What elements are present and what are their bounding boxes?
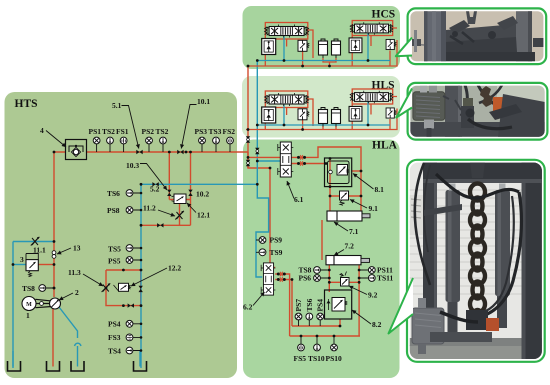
svg-text:10.1: 10.1	[197, 97, 210, 106]
svg-text:PS10: PS10	[326, 354, 343, 363]
svg-text:7.2: 7.2	[345, 242, 355, 251]
svg-text:HCS: HCS	[372, 9, 396, 21]
svg-text:12.2: 12.2	[168, 264, 181, 273]
svg-text:12.1: 12.1	[197, 211, 210, 220]
svg-text:11.2: 11.2	[143, 204, 156, 213]
svg-text:FS1: FS1	[116, 127, 129, 136]
svg-text:M: M	[26, 302, 32, 308]
svg-text:6.1: 6.1	[294, 195, 304, 204]
svg-text:PS6: PS6	[299, 274, 312, 283]
svg-text:PS1: PS1	[89, 127, 102, 136]
svg-text:11.1: 11.1	[33, 246, 46, 255]
svg-text:4: 4	[40, 126, 44, 135]
svg-text:TS9: TS9	[270, 248, 283, 257]
svg-text:PS8: PS8	[107, 206, 120, 215]
svg-text:13: 13	[73, 244, 81, 253]
svg-text:TS5: TS5	[108, 245, 121, 254]
svg-text:8.2: 8.2	[372, 320, 382, 329]
svg-text:TS6: TS6	[107, 189, 120, 198]
svg-text:TS2: TS2	[156, 127, 169, 136]
svg-text:PS3: PS3	[195, 127, 208, 136]
svg-text:HLS: HLS	[372, 80, 395, 92]
svg-text:5.2: 5.2	[150, 185, 160, 194]
svg-text:10.3: 10.3	[126, 161, 139, 170]
svg-text:2: 2	[75, 288, 79, 297]
svg-text:FS2: FS2	[223, 127, 236, 136]
svg-text:TS8: TS8	[22, 284, 35, 293]
svg-text:PS5: PS5	[108, 257, 121, 266]
svg-text:PS4: PS4	[108, 320, 121, 329]
svg-text:6.2: 6.2	[243, 303, 253, 312]
svg-text:3: 3	[20, 255, 24, 264]
svg-text:TS3: TS3	[209, 127, 222, 136]
svg-text:PS7: PS7	[294, 299, 303, 312]
svg-text:PS2: PS2	[142, 127, 155, 136]
svg-text:9.1: 9.1	[369, 204, 379, 213]
svg-text:5.1: 5.1	[112, 101, 122, 110]
svg-text:1: 1	[26, 311, 30, 320]
svg-text:11.3: 11.3	[68, 268, 81, 277]
svg-text:PS4: PS4	[316, 299, 325, 312]
svg-text:FS3: FS3	[108, 333, 121, 342]
svg-text:TS6: TS6	[305, 298, 314, 311]
svg-text:8.1: 8.1	[375, 185, 385, 194]
svg-text:TS4: TS4	[108, 347, 121, 356]
svg-text:10.2: 10.2	[196, 190, 209, 199]
svg-text:FS5: FS5	[294, 354, 307, 363]
svg-text:TS10: TS10	[308, 354, 325, 363]
svg-text:PS9: PS9	[270, 236, 283, 245]
svg-text:HLA: HLA	[372, 140, 398, 152]
svg-text:9.2: 9.2	[368, 291, 378, 300]
svg-text:7.1: 7.1	[349, 227, 359, 236]
svg-text:TS2: TS2	[102, 127, 115, 136]
svg-text:HTS: HTS	[15, 98, 38, 110]
svg-text:TS11: TS11	[377, 274, 394, 283]
